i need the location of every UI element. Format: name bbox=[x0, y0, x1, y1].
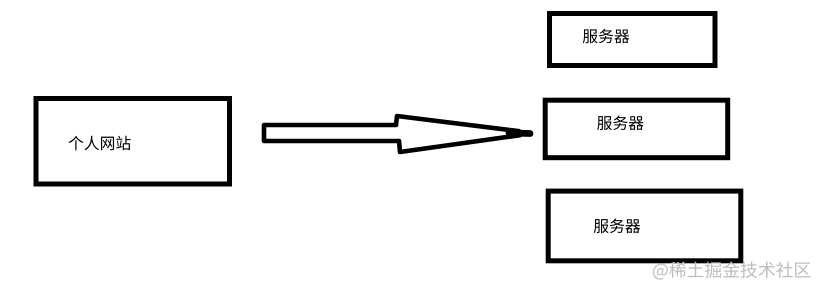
box: 服务器 top (server 1) bbox=[550, 14, 716, 66]
label: 服务器 middle bbox=[597, 116, 612, 130]
box: 服务器 middle (server 2) bbox=[545, 100, 728, 158]
arrow tip nub bbox=[509, 130, 530, 137]
box: 个人网站 (personal website) bbox=[36, 99, 230, 185]
label: 服务器 bottom bbox=[594, 219, 609, 233]
box: 服务器 bottom (server 3) bbox=[548, 191, 741, 261]
watermark: @稀土掘金技术社区 bbox=[653, 264, 668, 280]
label: 个人网站 bbox=[69, 136, 84, 151]
arrow: personal website to servers bbox=[264, 116, 520, 152]
label: 服务器 top bbox=[583, 29, 598, 43]
